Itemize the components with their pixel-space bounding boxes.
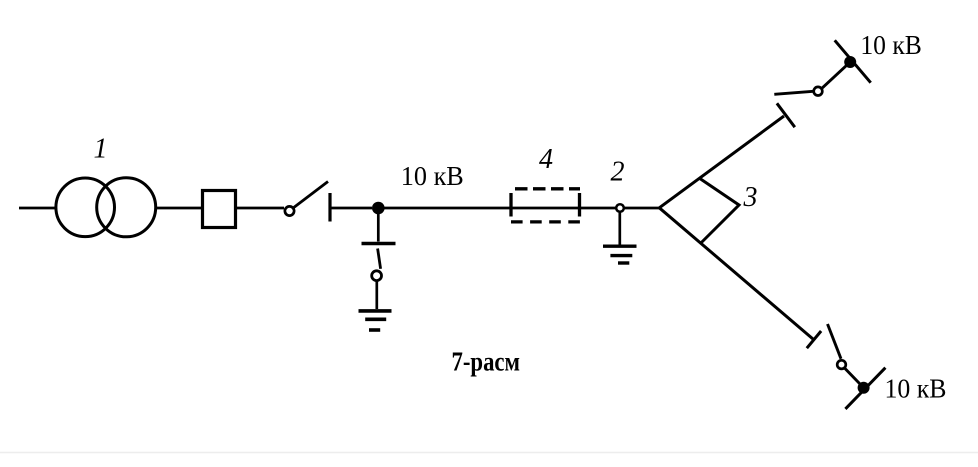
wire: lower feeder branch xyxy=(659,208,813,340)
wire: upper feeder branch xyxy=(659,116,784,208)
disconnector S1 fixed contact bar xyxy=(328,193,331,222)
ground symbol (left) xyxy=(359,311,392,330)
svg-text:2: 2 xyxy=(611,156,625,187)
wire: lower hinge to 10kV bus dot xyxy=(845,368,864,387)
svg-text:10 кВ: 10 кВ xyxy=(401,161,464,191)
upper 10kV busbar (slanted) xyxy=(835,40,871,82)
wire: box to disconnector xyxy=(236,207,284,210)
wire: node 2 drop to ground xyxy=(618,213,621,245)
wire: left input stub xyxy=(19,207,55,210)
ground symbol (node 2) xyxy=(603,246,637,263)
transformer T1 (two overlapping circles) xyxy=(56,178,115,237)
upper disconnector: blade xyxy=(774,91,813,94)
node 2: open circle xyxy=(616,204,624,212)
lower disconnector: blade xyxy=(828,324,842,359)
lower bus junction dot xyxy=(858,382,870,394)
cable joint 3 (bracket across branches) xyxy=(699,178,739,244)
upper bus junction dot xyxy=(844,56,856,68)
lower 10kV busbar (slanted) xyxy=(845,368,885,409)
upper disconnector: hinge circle xyxy=(814,87,823,96)
svg-text:3: 3 xyxy=(743,182,758,213)
wire: upper hinge to 10kV bus dot xyxy=(822,62,850,88)
upper disconnector: fixed contact bar xyxy=(777,103,795,127)
svg-text:1: 1 xyxy=(94,133,108,164)
junction dot (bus node) xyxy=(372,202,385,215)
wire: disconnector to bus junction xyxy=(330,207,372,210)
wire: main 10kV bus line to node 2 xyxy=(378,207,616,210)
lower disconnector: fixed contact bar xyxy=(807,331,821,348)
svg-text:10 кВ: 10 кВ xyxy=(885,373,947,403)
fuse/breaker box (square) xyxy=(203,191,236,228)
lower disconnector: hinge circle xyxy=(837,360,846,369)
earthing switch: drop wire from junction xyxy=(377,208,380,242)
svg-text:10 кВ: 10 кВ xyxy=(860,30,922,60)
wire: hinge to ground xyxy=(375,282,378,310)
wire: node 2 to fork xyxy=(624,207,660,210)
svg-text:4: 4 xyxy=(539,144,553,175)
faint page rule at bottom xyxy=(0,452,978,454)
wire: transformer to fuse box xyxy=(157,207,202,210)
disconnector S1 hinge circle xyxy=(285,206,294,215)
earthing switch: fixed contact bar xyxy=(362,242,396,245)
earthing switch: hinge circle xyxy=(372,271,382,281)
earthing switch: blade xyxy=(378,249,381,269)
svg-text:7-расм: 7-расм xyxy=(452,347,521,377)
disconnector S1 blade xyxy=(294,182,328,208)
cable section 4: dashed box xyxy=(511,189,580,222)
